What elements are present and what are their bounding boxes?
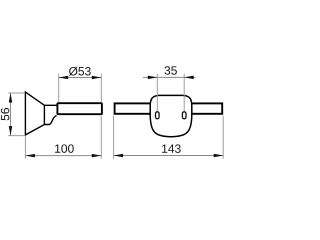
dim Ø53 arrow right [92, 76, 102, 80]
dim 143 arrow right [214, 154, 224, 158]
dim 56 line [10, 93, 12, 136]
dim 56 arrow down [9, 126, 13, 136]
front view: rosette squircle [150, 95, 192, 136]
dim 143 label [162, 144, 181, 152]
dim 35 arrow left (outside) [148, 76, 158, 80]
dim Ø53 extension line right [100, 74, 102, 103]
side view: wall cone flange outline [25, 92, 56, 135]
dim 143 arrow left [114, 154, 124, 158]
dim 56 arrow up [9, 93, 13, 103]
dim Ø53 arrow left [59, 76, 68, 80]
dim Ø53 extension line left [58, 74, 60, 103]
dim 100 extension line right [100, 116, 102, 159]
dim 100 label [55, 144, 74, 152]
mounting slot right [182, 112, 186, 119]
dim 35 arrow right (outside) [184, 76, 194, 80]
dim 56 extension line bottom [8, 135, 24, 137]
dim 35 extension line right [183, 74, 185, 112]
dim 100 arrow right [92, 154, 102, 158]
front view: rod [115, 103, 223, 113]
dim 56 extension line top [8, 92, 24, 94]
dim 143 line [114, 155, 224, 157]
mounting slot left [156, 112, 160, 119]
dim 35 line [143, 76, 196, 78]
dim 100 extension line left [24, 136, 26, 159]
dim Ø53 label [69, 67, 91, 76]
dim 35 extension line left [156, 74, 158, 112]
dim Ø53 line [59, 77, 102, 79]
dim 143 extension line left [113, 116, 115, 159]
dim 143 extension line right [222, 116, 224, 159]
side view: rod [57, 103, 102, 114]
dim 56 label [1, 108, 9, 120]
dim 100 arrow left [25, 154, 35, 158]
dim 35 label [164, 66, 176, 74]
dim 100 line [25, 155, 101, 157]
